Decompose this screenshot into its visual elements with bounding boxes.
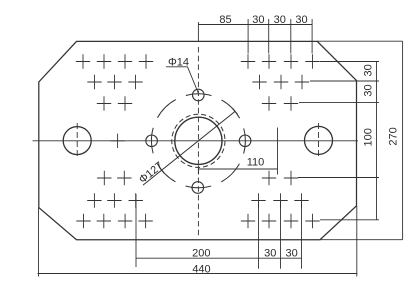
svg-text:Φ14: Φ14 — [168, 57, 189, 69]
svg-text:110: 110 — [247, 156, 265, 168]
svg-text:30: 30 — [274, 14, 286, 26]
svg-text:100: 100 — [363, 128, 375, 146]
svg-text:270: 270 — [388, 127, 400, 145]
svg-text:440: 440 — [192, 263, 210, 275]
svg-text:85: 85 — [219, 14, 231, 26]
svg-text:30: 30 — [363, 84, 375, 96]
svg-text:30: 30 — [285, 247, 297, 259]
svg-text:30: 30 — [252, 14, 264, 26]
svg-text:30: 30 — [295, 14, 307, 26]
svg-text:30: 30 — [363, 64, 375, 76]
svg-text:200: 200 — [192, 247, 210, 259]
svg-text:30: 30 — [264, 247, 276, 259]
